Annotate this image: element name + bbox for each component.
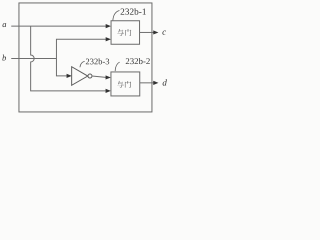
- AND1 text 与: [117, 29, 124, 36]
- arrowhead a into AND1: [106, 24, 111, 28]
- wire NOT output to AND2: [92, 76, 106, 77]
- inverter 232b-3 triangle: [72, 67, 88, 86]
- AND2 text 与: [117, 81, 124, 88]
- label 232b-3: [86, 58, 109, 64]
- label 232b-1: [121, 8, 146, 15]
- AND gate U2 box: [111, 72, 140, 96]
- wire a: [11, 25, 106, 27]
- arrowhead b into NOT: [67, 74, 72, 78]
- wire b branch down to NOT: [56, 58, 66, 75]
- arrowhead output c: [153, 30, 158, 34]
- wire AND1 output: [140, 31, 154, 33]
- AND gate U1 box: [111, 21, 140, 45]
- wire b branch up to AND1: [56, 39, 106, 58]
- leader 232b-2: [115, 62, 120, 71]
- leader 232b-3: [80, 61, 85, 67]
- wire b: [11, 57, 56, 59]
- arrowhead NOT into AND2: [106, 75, 111, 79]
- node b label: [2, 55, 6, 61]
- node a label: [3, 23, 7, 27]
- label 232b-2: [126, 58, 150, 64]
- wire a branch down: [31, 26, 106, 91]
- AND2 text 门: [125, 81, 131, 88]
- node c label: [162, 31, 166, 35]
- arrowhead b into AND1: [106, 37, 111, 41]
- arrowhead output d: [153, 81, 158, 85]
- leader 232b-1: [113, 10, 120, 20]
- node d label: [163, 79, 167, 85]
- arrowhead a into AND2: [106, 89, 111, 93]
- inverter bubble: [88, 74, 92, 78]
- AND1 text 门: [125, 29, 131, 36]
- outer block border: [19, 3, 152, 112]
- wire AND2 output: [140, 82, 154, 84]
